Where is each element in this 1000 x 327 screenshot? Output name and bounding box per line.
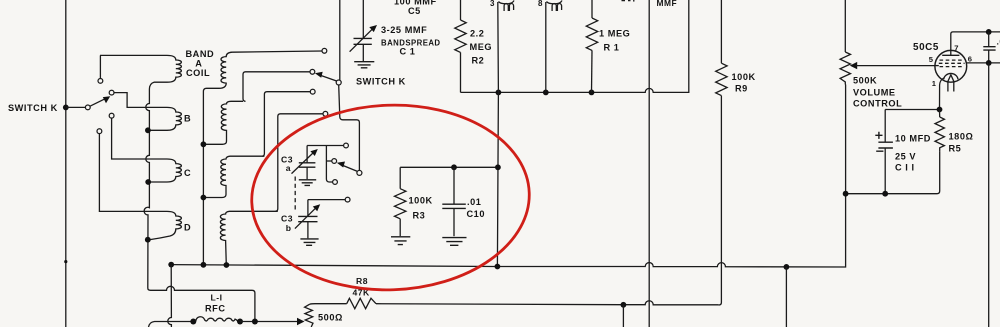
svg-text:MMF: MMF xyxy=(657,0,678,8)
node: junction dot at switch K xyxy=(63,105,69,111)
svg-text:50C5: 50C5 xyxy=(913,42,939,53)
wire: contact G to coil C2 top xyxy=(262,92,310,157)
capacitor C10 (.01) plates xyxy=(442,204,466,208)
wire: pin3 line down to bottom bus (through R3/C10 node) xyxy=(497,2,498,267)
svg-text:8: 8 xyxy=(538,0,543,8)
resistor R2 (2.2 MEG) zigzag xyxy=(455,20,466,52)
node: pin6 net dot xyxy=(986,60,992,66)
ground below C3b xyxy=(300,239,318,245)
node: small dot on left line lower xyxy=(64,260,67,263)
ground below C10 xyxy=(442,238,466,246)
wire: contact F to coil B2 top xyxy=(243,72,310,102)
svg-text:10 MFD: 10 MFD xyxy=(895,134,931,144)
svg-text:C: C xyxy=(184,168,191,178)
ground below R3 xyxy=(391,237,410,245)
tube grid lead pin 6 xyxy=(967,62,1000,64)
coil C (antenna section) xyxy=(148,159,181,182)
ground below C3a xyxy=(299,180,316,186)
wire: pin8 line down to bus xyxy=(545,2,547,92)
tube grids (dashed) xyxy=(940,59,964,61)
coil B2 (oscillator coil, band B) xyxy=(203,101,243,144)
resistor R9 (100K) zigzag xyxy=(716,63,727,95)
svg-text:VOLUME: VOLUME xyxy=(853,87,896,97)
cut text fragments at top xyxy=(622,0,635,2)
switch 2 moving contact circle xyxy=(336,80,341,85)
coil D2 (oscillator coil, band D) xyxy=(220,211,277,265)
svg-text:180Ω: 180Ω xyxy=(949,132,974,142)
capacitor .0x top lead xyxy=(988,32,990,46)
gang dashed link C3a-C3b xyxy=(294,177,296,213)
svg-text:R5: R5 xyxy=(949,143,962,153)
bottom bus wire with hops, bends up at right to volume control xyxy=(171,85,846,268)
resistor R9 top lead xyxy=(720,0,722,63)
svg-text:BAND: BAND xyxy=(186,49,215,59)
switch contact circle (band C) xyxy=(109,113,114,118)
node: junction above RFC right xyxy=(252,319,258,325)
wire: far-left vertical line xyxy=(65,0,67,327)
resistor R5 (180 ohm) zigzag xyxy=(935,117,944,152)
wire: RFC left line from bottom corner xyxy=(149,322,191,327)
annotation: red ellipse highlight xyxy=(249,100,533,294)
potentiometer wiper arrow and wire to tube pin 5 xyxy=(850,62,857,69)
wire: feed line from top to osc switch arm xyxy=(339,0,341,80)
node: C11 bottom junction xyxy=(882,191,888,197)
wire: C3b top lead to contact E2c xyxy=(308,199,345,201)
node: C10 top junction xyxy=(451,164,457,170)
wire: branch down to bottom edge xyxy=(622,305,624,327)
svg-text:100K: 100K xyxy=(409,196,433,206)
resistor R3 (100K) zigzag xyxy=(395,189,406,219)
resistor R1 (1 MEG) zigzag xyxy=(586,18,597,50)
switch 3 moving contact circle xyxy=(357,170,362,175)
wire: MMF capacitor line (full height) xyxy=(648,0,650,327)
svg-text:CONTROL: CONTROL xyxy=(853,99,902,109)
resistor R8 (47K) zigzag xyxy=(347,298,376,308)
wire: branch down from bus to bottom edge xyxy=(785,267,787,327)
resistor R5 bottom lead xyxy=(937,152,940,194)
capacitor C11 plus sign xyxy=(875,132,882,139)
potentiometer 500K zigzag xyxy=(840,52,850,85)
tube heater xyxy=(948,75,954,92)
node: coil C bottom junction xyxy=(145,179,151,185)
svg-text:R8: R8 xyxy=(356,276,368,286)
wire: branch down to contact C2c xyxy=(326,146,332,183)
switch 2 arm with arrowhead xyxy=(321,76,337,82)
node: bus to pin3 line xyxy=(496,90,502,96)
wire: contact H to coil D2 top xyxy=(275,114,323,212)
wire: antenna coil common vertical line with hop jogs xyxy=(144,89,255,321)
resistor R5 top lead xyxy=(939,110,941,118)
svg-text:500K: 500K xyxy=(853,76,877,86)
node: bus coil D2 junction xyxy=(224,262,230,268)
C3b trimmer arrow xyxy=(295,207,317,228)
node: coil D bottom junction xyxy=(145,237,151,243)
svg-text:C3: C3 xyxy=(281,213,293,223)
svg-text:SWITCH K: SWITCH K xyxy=(8,103,58,113)
wire: switch 2 arm to switch 3 arm xyxy=(339,85,360,170)
svg-text:2.2: 2.2 xyxy=(470,28,484,38)
switch 2 contact circle H (band D osc) xyxy=(323,111,328,116)
top bus wire with hop xyxy=(461,0,689,92)
switch 2 contact circle F (band B osc) xyxy=(310,69,315,74)
svg-text:C 1: C 1 xyxy=(400,46,416,56)
node: bus left end junction xyxy=(168,262,174,268)
svg-text:.01: .01 xyxy=(467,197,481,207)
tube cathode arc xyxy=(944,73,958,79)
svg-text:COIL: COIL xyxy=(186,68,210,78)
tube plate xyxy=(942,54,959,56)
wire: R8 to R9 bottom corner with hop xyxy=(376,301,719,305)
switch contact circle (band A) xyxy=(98,79,103,84)
wire: contact A up to coil A top lead xyxy=(99,55,101,78)
wire: dot to switch arm xyxy=(66,106,86,108)
svg-text:a: a xyxy=(286,163,291,173)
wire: 500 ohm top to R8 xyxy=(310,303,347,305)
switch 2 contact circle G (band C osc) xyxy=(310,89,315,94)
svg-text:R2: R2 xyxy=(472,56,485,66)
svg-text:C5: C5 xyxy=(408,6,421,16)
svg-text:C I I: C I I xyxy=(895,163,915,173)
switch K contact circle (band B) xyxy=(109,90,114,95)
capacitor C3b (variable, tuning gang) xyxy=(307,200,309,216)
svg-text:100K: 100K xyxy=(732,72,756,82)
svg-text:D: D xyxy=(184,223,191,233)
switch K arm with arrowhead xyxy=(90,99,106,107)
node: bus osc spine junction xyxy=(201,262,207,268)
wire: C3a top lead to contact A2c xyxy=(307,145,344,147)
svg-text:SWITCH K: SWITCH K xyxy=(356,76,406,86)
svg-text:A: A xyxy=(195,59,202,69)
wiper arrowhead into 500 ohm xyxy=(297,318,305,326)
switch 3 contact circle A2c xyxy=(344,143,349,148)
C1 trimmer arrow xyxy=(350,29,373,52)
coil D (antenna section) xyxy=(150,211,181,239)
switch 3 contact circle E2c (C3b) xyxy=(345,197,350,202)
svg-text:1 MEG: 1 MEG xyxy=(599,29,630,39)
wire: contact C down and right to coil C top xyxy=(112,118,164,159)
node: bus pin3-line junction xyxy=(495,264,501,270)
node: bus B+ branch junction xyxy=(784,264,790,270)
node: volume control line junction xyxy=(843,191,849,197)
svg-text:6: 6 xyxy=(968,54,972,63)
wire: R3/C10 top line xyxy=(400,166,497,168)
switch 2 contact circle (band A osc) xyxy=(322,48,327,53)
capacitor .0x plates xyxy=(983,47,995,50)
wire: contact B to coil B top xyxy=(114,93,164,108)
node: coil B bottom junction xyxy=(145,127,151,133)
resistor R3 bottom lead xyxy=(399,219,401,236)
coil A (band A coil, antenna section) xyxy=(100,55,181,89)
coil B (antenna section) xyxy=(148,107,181,130)
svg-text:b: b xyxy=(286,223,292,233)
node: screen line branch junction xyxy=(621,302,627,308)
resistor R3 top lead xyxy=(399,167,401,188)
tube cathode lead to pin 1 xyxy=(940,78,944,110)
svg-text:25 V: 25 V xyxy=(895,152,916,162)
switch K moving contact circle xyxy=(85,105,90,110)
svg-text:.0: .0 xyxy=(997,37,1000,47)
rheostat 500 ohm zigzag xyxy=(305,304,313,327)
svg-text:R3: R3 xyxy=(413,211,426,221)
capacitor C10 bottom lead xyxy=(453,208,455,236)
coil A2 (oscillator coil, band A) xyxy=(203,51,322,92)
node: osc coil B2 tap junction xyxy=(201,141,207,147)
resistor R2 top lead xyxy=(460,0,462,20)
resistor R1 top lead xyxy=(591,0,593,18)
tube plate lead to pin 7 xyxy=(951,32,1000,55)
node: pin7 net dot xyxy=(986,29,992,35)
svg-text:500Ω: 500Ω xyxy=(318,312,343,322)
node: osc coil C2 tap junction xyxy=(201,195,207,201)
capacitor C11 bottom lead xyxy=(884,148,886,194)
switch contact circle (band D) xyxy=(97,129,102,134)
switch 3 contact circle C2c xyxy=(333,180,338,185)
node: RFC right junction xyxy=(237,319,243,325)
ground below C1 xyxy=(354,62,374,68)
resistor R9 bottom lead down to R8 line xyxy=(719,96,722,305)
node: RFC left junction xyxy=(190,319,196,325)
tube grid lead pin 5 xyxy=(935,65,939,67)
svg-text:R9: R9 xyxy=(735,83,748,93)
capacitor C1 (3-25 MMF bandspread, variable) xyxy=(354,38,372,44)
resistor R1 bottom lead xyxy=(591,50,594,92)
coil C2 (oscillator coil, band C) xyxy=(203,156,264,197)
svg-text:MEG: MEG xyxy=(470,42,493,52)
node: bus to R1 xyxy=(589,90,595,96)
wire: oscillator coil common line (spine) xyxy=(202,92,204,266)
capacitor C11 (10 MFD electrolytic) plates xyxy=(876,142,893,151)
wire: stub from contact to C3a branch line xyxy=(326,160,331,162)
potentiometer 500K volume control top lead xyxy=(844,0,846,52)
svg-text:3-25 MMF: 3-25 MMF xyxy=(381,25,427,35)
svg-text:7: 7 xyxy=(954,43,958,52)
capacitor C10 top lead xyxy=(453,167,455,204)
inductor L-1 RFC coil xyxy=(196,317,238,322)
capacitor C3a (variable, tuning gang) xyxy=(306,146,308,163)
wire: right edge line down xyxy=(988,63,990,327)
node: pin1 junction xyxy=(937,107,943,113)
resistor R2 bottom lead xyxy=(460,52,462,92)
svg-text:R 1: R 1 xyxy=(604,42,620,52)
node: pin3 line junction at R3 net xyxy=(495,164,501,170)
wire: cathode net bottom line xyxy=(846,193,937,195)
svg-text:RFC: RFC xyxy=(205,304,226,314)
switch 3 contact circle B2c (C3a side) xyxy=(332,159,337,164)
wire: x171 line from bus to bottom with jog xyxy=(168,265,172,327)
node: bus to pin8 line xyxy=(543,90,549,96)
svg-text:3: 3 xyxy=(490,0,495,8)
tube V2 50C5 envelope xyxy=(935,50,967,82)
capacitor C11 top lead xyxy=(884,110,886,142)
wire: contact D down and right to coil D top xyxy=(99,134,164,212)
svg-text:L-I: L-I xyxy=(211,293,223,303)
switch 3 arm with arrowhead xyxy=(343,166,357,172)
svg-text:C10: C10 xyxy=(467,209,486,219)
C3a trimmer arrow xyxy=(292,152,315,174)
svg-text:B: B xyxy=(184,114,191,124)
capacitor C5 line from top xyxy=(362,0,364,38)
wire: pin1 to C11/R5 top line xyxy=(885,109,939,111)
wire: RFC to 500 ohm wiper xyxy=(240,321,299,323)
capacitor bottom lead to pin6 net xyxy=(988,50,990,63)
